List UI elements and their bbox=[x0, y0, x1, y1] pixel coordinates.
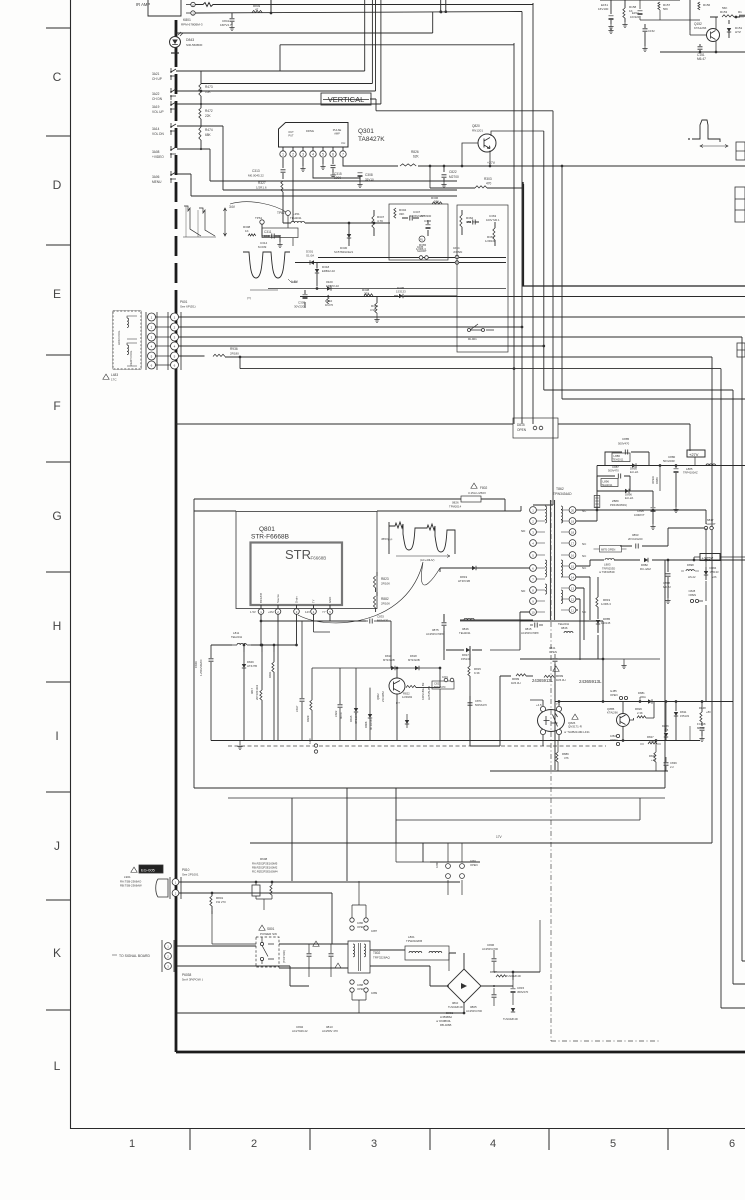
op-amp U1 Q301 TA8427K vertical output IC bbox=[279, 123, 349, 148]
inductor L351 TEH2011 bbox=[283, 212, 291, 223]
wire rail 296 right bbox=[410, 295, 457, 297]
ground feedback rail bbox=[239, 741, 241, 745]
capacitor C885 500V470 bbox=[625, 450, 627, 455]
svg-text:47: 47 bbox=[255, 8, 259, 12]
svg-text:MENU: MENU bbox=[152, 180, 162, 184]
svg-text:SIR-560B3F: SIR-560B3F bbox=[186, 43, 203, 47]
wire x555 drop bbox=[554, 664, 556, 770]
pin T862 left 1 bbox=[530, 507, 537, 514]
svg-text:L483: L483 bbox=[111, 373, 118, 377]
svg-text:HTZ: HTZ bbox=[735, 30, 741, 34]
svg-text:17: 17 bbox=[571, 541, 575, 545]
label L483 bbox=[103, 374, 109, 379]
svg-text:EU-2A: EU-2A bbox=[625, 496, 633, 500]
capacitor C887 500V470 bbox=[618, 474, 620, 479]
capacitor C833 560V470 bbox=[370, 619, 372, 624]
svg-text:SC5784ILFE21: SC5784ILFE21 bbox=[334, 250, 354, 254]
resistor R823 2R10K bbox=[373, 576, 375, 588]
wire pin2 down bbox=[292, 158, 294, 222]
wire AC to filter bbox=[273, 893, 348, 968]
svg-text:TEH2011: TEH2011 bbox=[613, 458, 624, 462]
svg-text:C822: C822 bbox=[449, 170, 457, 174]
diode D886 EU-2A bbox=[632, 463, 636, 467]
wire pin2 to right bbox=[195, 3, 533, 7]
svg-text:L896: L896 bbox=[603, 479, 610, 483]
svg-text:D: D bbox=[53, 178, 62, 192]
svg-text:C308: C308 bbox=[365, 173, 373, 177]
svg-text:H2515HB2: H2515HB2 bbox=[427, 685, 431, 700]
svg-text:Drain: Drain bbox=[295, 596, 299, 603]
svg-text:R1: R1 bbox=[738, 10, 742, 14]
connector stub box right edge middle bbox=[737, 343, 745, 357]
svg-text:OPEN: OPEN bbox=[470, 863, 478, 867]
pin T862 right 3 bbox=[569, 529, 576, 536]
capacitor C308 35V10 bbox=[313, 158, 360, 178]
svg-text:M0.0045.22: M0.0045.22 bbox=[248, 174, 264, 178]
svg-text:7: 7 bbox=[342, 153, 344, 157]
wire bus y368 bbox=[240, 369, 745, 1008]
svg-text:C313: C313 bbox=[252, 169, 260, 173]
svg-text:35V10: 35V10 bbox=[365, 178, 374, 182]
resistor R338 270 bbox=[364, 294, 373, 296]
svg-text:C817: C817 bbox=[295, 705, 299, 712]
resistor R306 56K bbox=[432, 202, 442, 204]
svg-text:11: 11 bbox=[571, 608, 574, 612]
diode D885 1S0145 bbox=[596, 620, 600, 624]
svg-text:56K: 56K bbox=[722, 6, 727, 10]
pin 7 Q301 bbox=[342, 147, 344, 151]
svg-text:L811: L811 bbox=[233, 631, 240, 635]
wire bridge out bbox=[309, 953, 540, 1013]
wire R474 to row5 bbox=[200, 140, 202, 149]
svg-text:1: 1 bbox=[282, 153, 284, 157]
resistor R310 1K270 bbox=[327, 295, 329, 304]
wire Q820 collector bbox=[491, 131, 544, 136]
capacitor C839 2.2u bbox=[664, 763, 669, 765]
svg-text:TEH2011: TEH2011 bbox=[459, 631, 471, 635]
svg-text:1: 1 bbox=[129, 1138, 135, 1150]
svg-text:17C: 17C bbox=[111, 378, 117, 382]
wire filter to bridge bbox=[370, 946, 456, 986]
resistor R303 470 bbox=[430, 187, 475, 189]
svg-text:476: 476 bbox=[564, 756, 569, 760]
jumper 0J87 OPEN bbox=[364, 926, 368, 930]
svg-text:L: L bbox=[54, 1059, 61, 1073]
svg-text:270: 270 bbox=[364, 292, 369, 296]
trunk vertical x543 bbox=[543, 131, 545, 390]
svg-text:1R6.3H: 1R6.3H bbox=[556, 678, 565, 682]
svg-text:3A08: 3A08 bbox=[152, 150, 160, 154]
svg-text:24365913L: 24365913L bbox=[579, 679, 602, 684]
svg-text:56K: 56K bbox=[663, 7, 668, 11]
wire Q885 region drops bbox=[640, 697, 690, 741]
svg-text:TEH2011: TEH2011 bbox=[558, 622, 570, 626]
svg-text:RPM-6780BM-3: RPM-6780BM-3 bbox=[181, 23, 203, 27]
svg-text:2: 2 bbox=[292, 153, 294, 157]
svg-text:TEH2011: TEH2011 bbox=[290, 216, 302, 220]
svg-text:22K: 22K bbox=[205, 114, 212, 118]
svg-text:155133: 155133 bbox=[461, 657, 471, 661]
svg-text:AC250V470PF: AC250V470PF bbox=[426, 632, 444, 636]
svg-text:560V6470: 560V6470 bbox=[434, 686, 446, 689]
diode D330 SC5784ILFE21 bbox=[347, 234, 351, 238]
svg-text:T862: T862 bbox=[556, 487, 564, 491]
resistor R899 1R6.3H bbox=[544, 675, 554, 677]
diode D896 EU-2A bbox=[625, 489, 629, 493]
svg-text:C885: C885 bbox=[622, 437, 630, 441]
svg-text:E: E bbox=[53, 287, 61, 301]
wire heavy rail 286 bbox=[523, 182, 745, 286]
resistor R473 10K bbox=[200, 71, 202, 84]
resistor R822 1/2R182 bbox=[406, 685, 416, 687]
capacitor C363 100V M0.1 bbox=[473, 220, 475, 225]
relay box cluster bbox=[389, 204, 448, 260]
resistor R347 4.7K bbox=[340, 222, 360, 224]
diode D817 1S0133 bbox=[466, 648, 470, 652]
wire cluster rail 282 bbox=[268, 288, 506, 290]
svg-text:GJ85: GJ85 bbox=[610, 689, 617, 693]
svg-text:+125V: +125V bbox=[702, 556, 714, 561]
svg-text:HOR.COIL: HOR.COIL bbox=[117, 330, 121, 345]
svg-text:C828: C828 bbox=[689, 589, 696, 593]
capacitor C806 AC250V4700 bbox=[492, 959, 497, 961]
svg-text:1/2R160: 1/2R160 bbox=[485, 239, 496, 243]
svg-text:TLN042K4D: TLN042K4D bbox=[448, 1005, 463, 1009]
svg-text:D810: D810 bbox=[385, 654, 392, 658]
vertical coil bbox=[127, 345, 129, 355]
diode D819 HTZ6.9B bbox=[472, 566, 476, 570]
wire top right mesh bbox=[600, 0, 660, 20]
svg-text:C: C bbox=[53, 70, 62, 84]
svg-text:VOL UP: VOL UP bbox=[152, 110, 164, 114]
pin T862 right 2 bbox=[569, 518, 576, 525]
svg-text:0846: 0846 bbox=[561, 626, 568, 630]
wire x597 from pin2 bbox=[576, 466, 597, 522]
svg-text:R828: R828 bbox=[649, 754, 656, 758]
resistor R899 1R6.3H bbox=[516, 674, 526, 676]
wire switch row4 bbox=[177, 126, 223, 190]
pin 2 Q301 bbox=[292, 147, 294, 151]
svg-text:16: 16 bbox=[571, 553, 575, 557]
wire heavy drop x523 bbox=[523, 184, 525, 286]
wires SMPS to lower bbox=[292, 788, 423, 881]
svg-text:or TRF9253D: or TRF9253D bbox=[599, 570, 615, 574]
svg-text:F: F bbox=[53, 399, 60, 413]
transistor Q802 2SC3852 bbox=[389, 678, 405, 694]
svg-text:M0.22: M0.22 bbox=[663, 585, 671, 589]
wire STR pin rail bbox=[261, 615, 366, 622]
svg-text:F802: F802 bbox=[480, 486, 487, 490]
wire switch bus row2 bbox=[177, 90, 376, 92]
wire rail y740 bbox=[555, 740, 700, 742]
svg-text:GND: GND bbox=[328, 597, 332, 603]
svg-text:POWER SW: POWER SW bbox=[260, 932, 277, 936]
resistor R362 1R2.7K bbox=[460, 215, 462, 227]
svg-text:R827: R827 bbox=[647, 735, 654, 739]
power board outline left edge bbox=[175, 20, 178, 310]
svg-text:R882: R882 bbox=[381, 597, 389, 601]
wire L351 out bbox=[305, 222, 340, 224]
pin 4 Q801 bbox=[313, 605, 315, 608]
diode D818 MTZJ22B bbox=[415, 666, 419, 670]
svg-text:R826: R826 bbox=[411, 150, 419, 154]
svg-text:Q802: Q802 bbox=[376, 693, 380, 700]
svg-text:AC250V470PF: AC250V470PF bbox=[521, 631, 539, 635]
svg-text:STR: STR bbox=[285, 547, 311, 562]
svg-text:Vcc: Vcc bbox=[341, 141, 346, 145]
capacitor C807 rotated bbox=[300, 699, 305, 701]
diode D151 bbox=[727, 28, 731, 32]
wire run y390 to right margin bbox=[544, 390, 745, 984]
pin T862 right 7 bbox=[569, 574, 576, 581]
inductor D898 HS.22 bbox=[686, 570, 694, 571]
trunk keyline x380.9 bbox=[380, 0, 382, 104]
svg-text:10: 10 bbox=[531, 610, 535, 614]
capacitor C815 450V270 bbox=[511, 989, 516, 993]
capacitor C813 AC250V 470 bbox=[329, 954, 334, 956]
jumper 0J34 OPEN bbox=[455, 255, 459, 259]
svg-text:AC250V4700: AC250V4700 bbox=[482, 947, 498, 951]
svg-text:3: 3 bbox=[302, 153, 304, 157]
svg-text:MTZJ27B: MTZJ27B bbox=[354, 712, 358, 724]
wire B+ rail y500 bbox=[194, 498, 455, 500]
svg-text:HTZ/6.9B: HTZ/6.9B bbox=[458, 579, 470, 583]
SMPS section box bbox=[194, 499, 665, 788]
resistor R826 62K bbox=[400, 164, 416, 166]
leader curve drain pin bbox=[298, 562, 440, 623]
waveform sawtooth TP bbox=[184, 206, 215, 236]
LED D843 bbox=[170, 37, 181, 48]
svg-text:+VIDEO: +VIDEO bbox=[152, 155, 164, 159]
wire switch row6 bbox=[177, 174, 191, 196]
svg-text:62K: 62K bbox=[413, 155, 420, 159]
wire rail y257 bbox=[318, 257, 506, 259]
capacitor C347 F10SV6.02T bbox=[410, 216, 412, 221]
wire lower right bbox=[483, 972, 513, 986]
svg-text:2: 2 bbox=[251, 1138, 257, 1150]
pin 5 Q301 bbox=[322, 147, 324, 151]
IR receiver K801 bbox=[148, 0, 181, 16]
resistor R474 68K bbox=[200, 119, 202, 127]
svg-text:4: 4 bbox=[312, 153, 314, 157]
jumper 0J88 OPEN bbox=[350, 980, 354, 984]
pin T862 right 1 bbox=[569, 507, 576, 514]
diode D849 HTZJ27B bbox=[242, 664, 246, 668]
wire jumpers up bbox=[352, 881, 366, 918]
svg-text:C839: C839 bbox=[670, 761, 677, 765]
resistor R153 56K bbox=[722, 15, 734, 17]
svg-text:G: G bbox=[52, 509, 61, 523]
diode D806 MTZ15B rotated bbox=[368, 714, 372, 718]
svg-text:R474: R474 bbox=[205, 128, 213, 132]
svg-text:24365913L: 24365913L bbox=[532, 678, 554, 683]
svg-text:-F6668B: -F6668B bbox=[309, 556, 326, 561]
svg-text:OPEN: OPEN bbox=[610, 738, 617, 742]
pin T862 right 5 bbox=[569, 552, 576, 559]
svg-text:18: 18 bbox=[571, 530, 575, 534]
svg-text:34V: 34V bbox=[229, 205, 236, 209]
svg-text:ERB?2-02: ERB?2-02 bbox=[326, 284, 339, 288]
svg-text:TRF9253D: TRF9253D bbox=[602, 566, 615, 570]
svg-text:1/2R182: 1/2R182 bbox=[402, 695, 413, 699]
wire bus y337 bbox=[179, 337, 745, 961]
varistor Z889 PRF4600549 bbox=[594, 496, 600, 508]
wire D843 supply bbox=[175, 12, 433, 33]
svg-text:3A22: 3A22 bbox=[152, 92, 160, 96]
resistor R936 2R180 bbox=[179, 355, 205, 357]
svg-text:560V470: 560V470 bbox=[377, 619, 389, 623]
wire top right vertical bbox=[689, 0, 691, 30]
svg-text:RL901: RL901 bbox=[468, 337, 477, 341]
ground top right bbox=[642, 46, 647, 52]
svg-text:1/2R1.6: 1/2R1.6 bbox=[256, 186, 267, 190]
isolation dashed line bbox=[551, 501, 660, 1041]
jumper 6815 OPEN box bbox=[600, 546, 622, 553]
wire R826 bbox=[630, 702, 655, 721]
jumper 0J89 OPEN bbox=[364, 980, 368, 984]
capacitor C309 30V220 bbox=[303, 295, 308, 299]
regulator inner body bbox=[251, 543, 343, 606]
pin T862 right 8 bbox=[569, 585, 576, 592]
svg-text:(TOP 940): (TOP 940) bbox=[282, 950, 286, 963]
svg-text:FC848: FC848 bbox=[697, 722, 706, 726]
svg-text:R823: R823 bbox=[381, 577, 389, 581]
svg-text:C822: C822 bbox=[334, 710, 338, 717]
svg-text:155133: 155133 bbox=[680, 714, 689, 718]
capacitor C151 M6.47 bbox=[699, 44, 701, 46]
svg-text:+66: +66 bbox=[712, 575, 717, 579]
svg-text:1.25KVM2200: 1.25KVM2200 bbox=[199, 659, 203, 676]
svg-text:0805: 0805 bbox=[470, 1005, 477, 1009]
capacitor C820 M047 rotated bbox=[338, 705, 343, 707]
leader curve TP62 bbox=[230, 202, 286, 212]
svg-text:115: 115 bbox=[664, 728, 669, 732]
svg-text:+14: +14 bbox=[651, 758, 656, 762]
wire transformer aux rows bbox=[576, 577, 590, 660]
trunk keyline x364.7 bbox=[364, 0, 366, 71]
svg-text:1/2R6.3: 1/2R6.3 bbox=[601, 602, 611, 606]
resistor R848 +80 bbox=[701, 702, 703, 713]
svg-text:TPW3434AD: TPW3434AD bbox=[553, 492, 572, 496]
svg-text:16V100: 16V100 bbox=[598, 7, 609, 11]
diode D811 1S0133 bbox=[675, 702, 677, 712]
svg-text:TPW2022KB: TPW2022KB bbox=[406, 939, 422, 943]
wire R327 down bbox=[282, 192, 284, 212]
wire rail C y491 bbox=[597, 476, 653, 491]
svg-text:R303: R303 bbox=[484, 177, 492, 181]
wire +27V rail bbox=[418, 165, 745, 167]
wire pin3 bus bbox=[195, 12, 522, 14]
diode D884 155133 bbox=[704, 571, 708, 575]
svg-text:0J88: 0J88 bbox=[357, 983, 364, 987]
pin 1 Q801 bbox=[260, 605, 262, 608]
svg-text:S801: S801 bbox=[267, 927, 275, 931]
svg-text:RU-4AM: RU-4AM bbox=[640, 567, 651, 571]
svg-text:KTA(266: KTA(266 bbox=[607, 711, 618, 715]
svg-text:R153: R153 bbox=[720, 10, 728, 14]
svg-text:M2700: M2700 bbox=[449, 175, 459, 179]
wire rail B y476 C887 bbox=[597, 476, 630, 491]
svg-text:PRF4600549(: PRF4600549( bbox=[610, 503, 627, 507]
resistor R829 column bbox=[310, 700, 312, 710]
pin T862 left 8 bbox=[530, 587, 537, 594]
capacitor C875 AC250V470PF bbox=[442, 623, 447, 625]
svg-text:L885: L885 bbox=[686, 467, 693, 471]
inductor L883 TRF9253D bbox=[605, 558, 614, 560]
svg-text:OUT: OUT bbox=[288, 130, 294, 134]
svg-text:OPEN: OPEN bbox=[549, 650, 557, 654]
svg-text:MTZJ22B: MTZJ22B bbox=[383, 658, 395, 662]
svg-text:R327: R327 bbox=[258, 181, 266, 185]
resistor R154 bbox=[739, 15, 745, 17]
wire aux feed y45 bbox=[280, 44, 514, 46]
svg-text:+80: +80 bbox=[706, 710, 711, 714]
svg-text:3A14: 3A14 bbox=[152, 127, 160, 131]
svg-text:R156: R156 bbox=[703, 3, 711, 7]
svg-text:CH DN: CH DN bbox=[152, 97, 163, 101]
pin 2 Q801 bbox=[277, 605, 279, 608]
svg-text:RL: RL bbox=[420, 238, 424, 242]
deflection yoke dashed box bbox=[113, 311, 141, 369]
svg-text:20: 20 bbox=[571, 508, 575, 512]
svg-text:3: 3 bbox=[371, 1138, 377, 1150]
svg-text:0817: 0817 bbox=[250, 688, 254, 694]
svg-text:0J86: 0J86 bbox=[357, 921, 364, 925]
resistor R801 1W 270 bbox=[210, 896, 212, 906]
svg-text:L883: L883 bbox=[604, 563, 611, 567]
wire P601 column links bbox=[156, 317, 171, 365]
resistor R156 top edge bbox=[698, 2, 700, 10]
transistor Q820 RN1201 bbox=[478, 134, 496, 152]
diode D301 body bbox=[310, 260, 314, 264]
wire P6038 row3 bbox=[177, 966, 309, 986]
svg-text:5: 5 bbox=[322, 153, 324, 157]
wire rail y659 bbox=[520, 658, 603, 660]
wire rail y262 bbox=[295, 262, 506, 264]
svg-text:BCF/FB: BCF/FB bbox=[259, 593, 263, 603]
svg-text:3A19: 3A19 bbox=[152, 105, 160, 109]
svg-text:MTZJ22B: MTZJ22B bbox=[408, 658, 420, 662]
svg-text:2R10K: 2R10K bbox=[381, 582, 390, 586]
svg-text:R473: R473 bbox=[205, 85, 213, 89]
wire bus y357 bbox=[225, 357, 712, 843]
pin 5 Q801 bbox=[329, 605, 331, 608]
svg-text:R936: R936 bbox=[230, 347, 238, 351]
svg-text:5: 5 bbox=[610, 1138, 616, 1150]
svg-text:2R180: 2R180 bbox=[230, 352, 239, 356]
jumper 0J84 OPEN bbox=[616, 734, 619, 737]
svg-text:RN1201: RN1201 bbox=[472, 129, 483, 133]
wire D843 cathode bbox=[171, 52, 179, 54]
relay RL1 bbox=[419, 236, 425, 242]
wire K801 pins bbox=[186, 5, 191, 14]
svg-text:DRIVE: DRIVE bbox=[306, 129, 314, 133]
svg-text:D843: D843 bbox=[186, 38, 194, 42]
svg-text:CH UP: CH UP bbox=[152, 77, 162, 81]
svg-text:Q301: Q301 bbox=[358, 128, 374, 135]
wire bus y316 bbox=[179, 316, 745, 318]
svg-text:ERB12-02: ERB12-02 bbox=[322, 269, 335, 273]
wire y621 right bbox=[520, 620, 603, 622]
svg-text:T802: T802 bbox=[373, 951, 380, 955]
line filter T802 TRF3228AQ bbox=[348, 941, 370, 973]
diode D8xx small bbox=[405, 720, 409, 724]
svg-text:TRF3228AQ: TRF3228AQ bbox=[373, 956, 391, 960]
diode D893 2KV1R1220 row bbox=[620, 528, 714, 546]
svg-text:MTZ/15B: MTZ/15B bbox=[369, 719, 373, 730]
wire x553 transformer feed bbox=[533, 111, 553, 505]
waveform vertical drive pulse bbox=[692, 120, 720, 142]
